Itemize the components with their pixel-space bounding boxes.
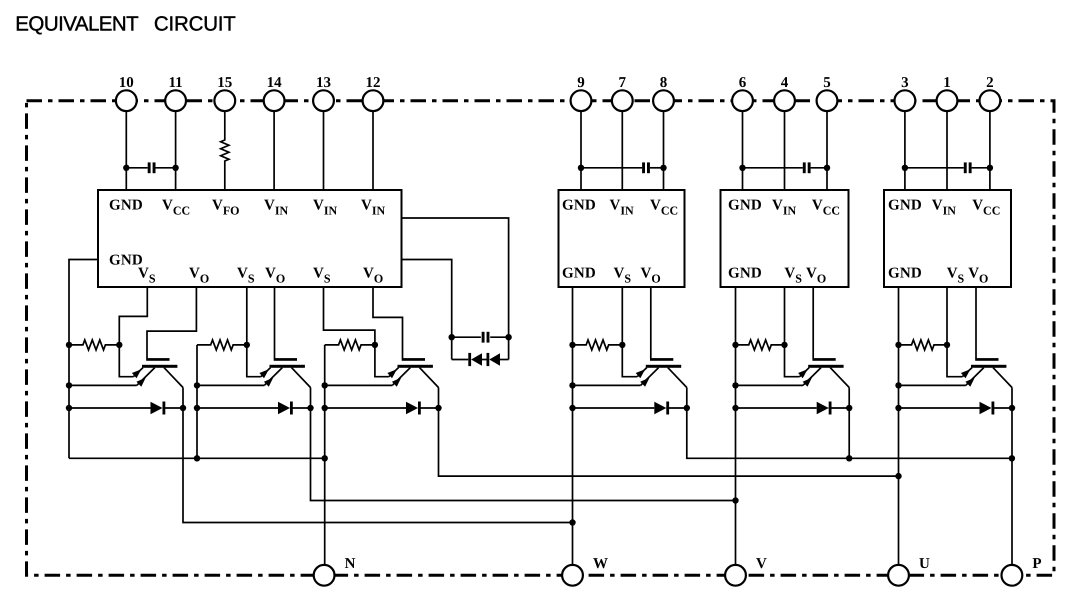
wire VCC-GND capacitor link (HVIC) [905,167,964,169]
svg-text:7: 7 [619,75,627,91]
IGBT lower diagonal (Q2 N-side) [264,368,282,386]
IGBT body bar (Q2 N-side) [270,365,305,368]
pin 4 terminal [774,90,795,111]
resistor gate (Q6 U-phase) [899,340,948,350]
IGBT upper arrow (Q3 N-side) [387,369,397,378]
IGBT collector diagonal (Q2 N-side) [292,368,311,388]
wire pin 12 VIN to driver block [372,111,374,190]
junction rail/diode (Q6 U-phase) [895,405,901,411]
svg-text:2: 2 [986,75,994,91]
wire freewheel diode line (Q4 W-phase) [573,407,655,409]
IGBT gate bar (Q3 N-side) [402,358,425,361]
pin 2 terminal [980,90,1001,111]
IGBT gate bar (Q2 N-side) [274,358,297,361]
wire collector drop (Q6 U-phase) [1011,388,1013,409]
junction N bus / N line [322,455,328,461]
svg-text:N: N [345,556,356,572]
IGBT gate bar (Q4 W-phase) [650,358,673,361]
junction GND side [739,165,745,171]
junction rail/resistor (Q5 V-phase) [732,342,738,348]
pin 8 terminal [653,90,674,111]
wire collector drop (Q4 W-phase) [686,388,688,409]
pin 15 terminal [214,90,235,111]
junction GND side [123,165,129,171]
wire Q6 collector / P line [1011,408,1013,565]
wire VCC-GND capacitor link (HVIC) [581,167,642,169]
junction Q1 collector / W rail [569,519,575,525]
IGBT lower arrow (Q2 N-side) [264,378,273,387]
wire VO3 gate jog [373,287,403,359]
wire pin 13 VIN to driver block [323,111,325,190]
wire VS node descender (Q1 N-side) [119,345,133,377]
capacitor across LVIC supply [148,162,151,173]
pin N terminal [314,565,335,586]
wire pin 11 VCC to driver block [175,111,177,190]
wire freewheel diode line (Q5 V-phase) [736,407,817,409]
junction Q2 collector / V rail [732,497,738,503]
IGBT lower arrow (Q6 U-phase) [965,378,974,387]
wire VO gate drop (Q4 W-phase) [650,287,652,359]
svg-text:VO: VO [189,266,209,286]
svg-text:GND: GND [562,266,596,282]
IGBT gate bar (Q1 N-side) [146,358,169,361]
svg-text:VCC: VCC [812,198,840,218]
junction rail/diode (Q3 N-side) [322,405,328,411]
pin V terminal [725,565,746,586]
IGBT upper diagonal (Q5 V-phase) [800,368,810,377]
svg-text:U: U [919,556,930,572]
resistor gate (Q1 N-side) [69,340,119,350]
wire LVIC right edge upper to clamp [402,218,509,360]
wire Q3 collector to U output [439,408,899,476]
svg-text:VO: VO [363,266,383,286]
junction rail/diode (Q4 W-phase) [569,405,575,411]
junction rail/emitter (Q4 W-phase) [569,382,575,388]
IGBT collector diagonal (Q1 N-side) [164,368,183,388]
wire VS node descender (Q2 N-side) [247,345,261,377]
svg-text:1: 1 [943,75,951,91]
junction N bus / rail 2 [194,455,200,461]
resistor gate (Q2 N-side) [197,340,247,350]
wire pin 3 GND to driver block [904,111,906,190]
junction VCC side [660,165,666,171]
svg-text:GND: GND [728,198,762,214]
wire Q1 collector to W output [183,408,573,523]
IGBT body bar (Q5 V-phase) [808,365,843,368]
wire VO gate drop (Q6 U-phase) [975,287,977,359]
wire VS node descender (Q4 W-phase) [622,345,637,377]
wire clamp capacitor row [452,336,481,338]
wire freewheel diode line (Q3 N-side) [325,407,406,409]
junction diode/collector (Q5 V-phase) [846,405,852,411]
wire VS1 jog [119,287,147,345]
IGBT upper arrow (Q1 N-side) [132,369,142,378]
HVIC driver block (W phase) [559,190,685,287]
IGBT gate bar (Q6 U-phase) [975,358,998,361]
wire pin 10 GND to driver block [125,111,127,190]
junction rail/emitter (Q6 U-phase) [895,382,901,388]
IGBT collector diagonal (Q4 W-phase) [668,368,687,388]
resistor gate (Q5 V-phase) [736,340,785,350]
svg-text:CIRCUIT: CIRCUIT [154,12,236,35]
pin 7 terminal [612,90,633,111]
IGBT gate bar (Q5 V-phase) [812,358,835,361]
resistor gate (Q4 W-phase) [573,340,623,350]
svg-text:GND: GND [728,266,762,282]
wire pin 1 VIN to driver block [946,111,948,190]
wire VO2 gate drop [274,287,276,359]
wire Q5 V-phase output rail [735,287,737,565]
svg-text:GND: GND [109,198,143,214]
svg-text:5: 5 [823,75,831,91]
wire VO gate drop (Q5 V-phase) [812,287,814,359]
wire pin 2 VCC to driver block [989,111,991,190]
svg-text:VIN: VIN [610,198,635,218]
wire pin 7 VIN to driver block [621,111,623,190]
junction diode/collector (Q1 N-side) [180,405,186,411]
svg-text:VCC: VCC [650,198,678,218]
svg-text:VO: VO [265,266,285,286]
wire freewheel diode line (Q1 N-side) [69,407,151,409]
svg-text:V: V [756,556,767,572]
pin 11 terminal [165,90,186,111]
junction P bus / P line [1009,455,1015,461]
junction rail/diode (Q5 V-phase) [732,405,738,411]
capacitor across HVIC supply [803,162,806,173]
IGBT lower arrow (Q5 V-phase) [803,378,812,387]
pin 12 terminal [363,90,384,111]
svg-text:GND: GND [562,198,596,214]
wire pin 9 GND to driver block [580,111,582,190]
svg-text:VO: VO [641,266,661,286]
wire VS node descender (Q3 N-side) [375,345,389,377]
LVIC driver block [98,190,402,287]
wire collector drop (Q1 N-side) [182,388,184,409]
wire emitter line (Q2 N-side) [197,384,264,386]
capacitor across HVIC supply [964,162,967,173]
junction GND side [578,165,584,171]
junction VCC side [172,165,178,171]
svg-text:GND: GND [888,266,922,282]
pin 9 terminal [571,90,592,111]
IGBT body bar (Q6 U-phase) [971,365,1006,368]
IGBT upper diagonal (Q3 N-side) [389,368,399,377]
pin U terminal [888,565,909,586]
svg-text:VCC: VCC [162,198,190,218]
IGBT lower diagonal (Q3 N-side) [392,368,410,386]
IGBT lower arrow (Q1 N-side) [136,378,145,387]
wire VS drop (Q5 V-phase) [784,287,786,345]
svg-text:VS: VS [784,266,802,286]
IGBT upper diagonal (Q2 N-side) [261,368,271,377]
IGBT upper diagonal (Q6 U-phase) [962,368,972,377]
svg-text:8: 8 [660,75,668,91]
pin 10 terminal [116,90,137,111]
svg-text:VCC: VCC [972,198,1000,218]
junction rail/emitter (Q2 N-side) [194,382,200,388]
IGBT lower arrow (Q3 N-side) [392,378,401,387]
junction diode/collector (Q3 N-side) [435,405,441,411]
junction VS3/resistor [372,342,378,348]
wire VS3 jog [324,287,375,345]
IGBT lower diagonal (Q4 W-phase) [641,368,659,386]
wire emitter line (Q1 N-side) [69,384,137,386]
wire VO1 gate jog [147,287,196,359]
svg-text:VS: VS [138,266,156,286]
svg-text:VIN: VIN [264,198,289,218]
IGBT lower arrow (Q4 W-phase) [640,378,649,387]
junction VS/resistor (Q4 W-phase) [619,342,625,348]
svg-text:11: 11 [169,75,183,91]
pin W terminal [562,565,583,586]
pin 5 terminal [817,90,838,111]
wire pin 5 VCC to driver block [826,111,828,190]
pin 13 terminal [313,90,334,111]
wire pin 4 VIN to driver block [784,111,786,190]
freewheel diode (Q2 N-side) [278,402,290,414]
junction VS2/resistor [244,342,250,348]
svg-text:4: 4 [781,75,789,91]
wire Q2 collector to V output [311,408,736,501]
svg-text:VS: VS [237,266,255,286]
IGBT upper diagonal (Q1 N-side) [133,368,143,377]
wire collector drop (Q2 N-side) [310,388,312,409]
HVIC driver block (V phase) [721,190,849,287]
wire Q6 U-phase output rail [898,287,900,565]
IGBT lower diagonal (Q1 N-side) [137,368,155,386]
junction VS1/resistor [116,342,122,348]
svg-text:13: 13 [316,75,331,91]
wire collector drop (Q5 V-phase) [848,388,850,409]
svg-text:10: 10 [119,75,134,91]
junction Q3 collector / U rail [895,473,901,479]
capacitor (clamp) [482,332,485,343]
IGBT body bar (Q1 N-side) [142,365,177,368]
svg-text:12: 12 [366,75,381,91]
junction diode/collector (Q6 U-phase) [1009,405,1015,411]
junction diode/collector (Q2 N-side) [307,405,313,411]
wire emitter line (Q3 N-side) [325,384,393,386]
IGBT lower diagonal (Q6 U-phase) [966,368,984,386]
diode (clamp, series pair b) [487,353,490,366]
IGBT upper arrow (Q4 W-phase) [636,369,646,378]
wire VS node descender (Q5 V-phase) [785,345,800,377]
wire VS node descender (Q6 U-phase) [947,345,962,377]
IGBT upper arrow (Q6 U-phase) [961,369,971,378]
wire LVIC right edge lower to clamp [402,260,452,360]
junction VCC side [987,165,993,171]
svg-text:VIN: VIN [361,198,386,218]
junction rail/emitter (Q3 N-side) [322,382,328,388]
wire pin 14 VIN to driver block [273,111,275,190]
diode (clamp, series pair a) [468,353,471,366]
junction rail/diode (Q1 N-side) [66,405,72,411]
wire VCC-GND capacitor link (HVIC) [743,167,803,169]
HVIC driver block (U phase) [884,190,1011,287]
svg-text:VIN: VIN [313,198,338,218]
wire emitter line (Q5 V-phase) [736,384,804,386]
IGBT collector diagonal (Q5 V-phase) [830,368,849,388]
junction GND side [902,165,908,171]
freewheel diode (Q5 V-phase) [817,402,829,414]
svg-text:3: 3 [901,75,909,91]
IGBT upper diagonal (Q4 W-phase) [637,368,647,377]
wire VCC-GND capacitor link (LVIC) [126,167,147,169]
pin P terminal [1002,565,1023,586]
wire freewheel diode line (Q6 U-phase) [899,407,980,409]
junction rail/resistor (Q1 N-side) [66,342,72,348]
wire VS drop (Q4 W-phase) [621,287,623,345]
junction clamp right [505,334,511,340]
wire resistor to emitter rail 2 [196,345,198,458]
IGBT upper arrow (Q5 V-phase) [798,369,808,378]
svg-text:15: 15 [217,75,232,91]
wire emitter line (Q6 U-phase) [899,384,966,386]
svg-text:VO: VO [968,266,988,286]
pin 1 terminal [937,90,958,111]
IGBT lower diagonal (Q5 V-phase) [803,368,821,386]
junction rail/diode (Q2 N-side) [194,405,200,411]
svg-text:VS: VS [313,266,331,286]
pin 3 terminal [895,90,916,111]
junction rail/emitter (Q1 N-side) [66,382,72,388]
svg-text:14: 14 [267,75,283,91]
svg-text:VS: VS [947,266,965,286]
svg-text:VFO: VFO [212,198,240,218]
junction Q5 collector / P bus [846,455,852,461]
wire collector drop (Q3 N-side) [438,388,440,409]
wire resistor to emitter rail 3 (N line) [324,345,326,565]
freewheel diode (Q4 W-phase) [654,402,666,414]
junction rail/resistor (Q6 U-phase) [895,342,901,348]
svg-text:EQUIVALENT: EQUIVALENT [15,12,139,35]
module boundary (dash-dot outline) [27,101,1055,576]
IGBT collector diagonal (Q6 U-phase) [993,368,1012,388]
svg-text:6: 6 [739,75,747,91]
wire VS drop (Q6 U-phase) [946,287,948,345]
svg-text:VIN: VIN [772,198,797,218]
svg-text:9: 9 [577,75,585,91]
resistor in series with pin 15 (VFO) [221,111,229,190]
wire pin 6 GND to driver block [742,111,744,190]
junction rail/resistor (Q4 W-phase) [569,342,575,348]
svg-text:VS: VS [614,266,632,286]
wire freewheel diode line (Q2 N-side) [197,407,278,409]
pin 6 terminal [732,90,753,111]
junction rail/emitter (Q5 V-phase) [732,382,738,388]
junction VS/resistor (Q5 V-phase) [781,342,787,348]
capacitor across HVIC supply [642,162,645,173]
IGBT body bar (Q4 W-phase) [646,365,681,368]
wire Q4 W-phase output rail [572,287,574,565]
svg-text:P: P [1032,556,1041,572]
wire Q5 collector to P bus [848,408,850,458]
freewheel diode (Q6 U-phase) [980,402,992,414]
wire N bus [69,457,325,459]
IGBT upper arrow (Q2 N-side) [259,369,269,378]
wire pin 8 VCC to driver block [663,111,665,190]
junction clamp left [449,334,455,340]
freewheel diode (Q3 N-side) [406,402,418,414]
svg-text:W: W [593,556,608,572]
IGBT collector diagonal (Q3 N-side) [420,368,439,388]
wire clamp diode row [452,359,469,361]
wire VS2 drop [246,287,248,345]
IGBT body bar (Q3 N-side) [398,365,433,368]
wire emitter line (Q4 W-phase) [573,384,641,386]
pin 14 terminal [264,90,285,111]
resistor gate (Q3 N-side) [325,340,375,350]
svg-text:VO: VO [806,266,826,286]
junction VCC side [824,165,830,171]
svg-text:VIN: VIN [932,198,957,218]
wire Q4 collector to P bus [687,408,1012,458]
freewheel diode (Q1 N-side) [151,402,163,414]
wire LVIC GND to N rail [69,260,98,459]
junction VS/resistor (Q6 U-phase) [944,342,950,348]
junction diode/collector (Q4 W-phase) [684,405,690,411]
svg-text:GND: GND [888,198,922,214]
